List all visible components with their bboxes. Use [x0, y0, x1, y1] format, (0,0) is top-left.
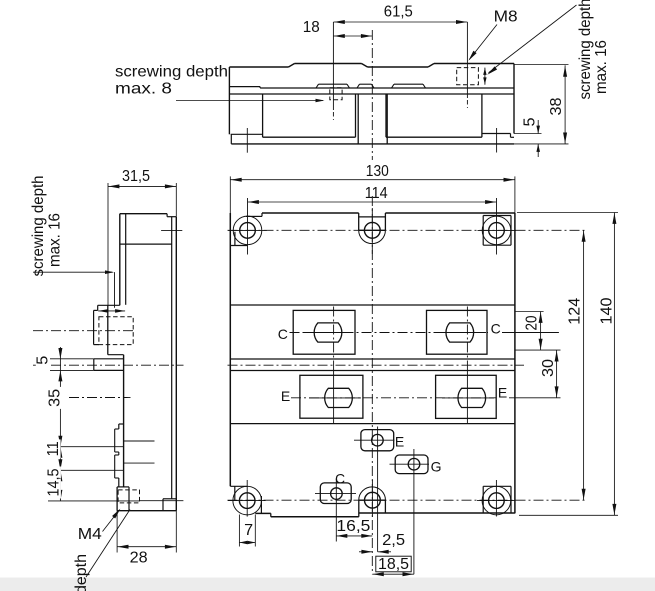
- svg-text:140: 140: [599, 297, 616, 324]
- dimension chain 5 / 35 / 11 / 14,5: [59, 347, 61, 501]
- main view: mounting hole top left: [240, 223, 256, 239]
- left view: busbar slot tab: [93, 359, 95, 371]
- main view: top edge right part: [385, 212, 515, 214]
- left view: top edge: [120, 213, 167, 215]
- main view: top hole row centerline / 124 dim extension: [228, 229, 588, 231]
- svg-text:M4: M4: [78, 526, 102, 543]
- left view: top mounting hole row tick: [161, 229, 182, 231]
- svg-text:38: 38: [548, 97, 565, 115]
- main view: terminal band top line: [230, 304, 515, 306]
- svg-text:5: 5: [521, 117, 538, 126]
- main view: mounting hole bottom left: [239, 493, 255, 509]
- top view: case lower rim line left: [229, 86, 260, 88]
- main view: busbar slot top line: [230, 358, 515, 360]
- dimension 7: [238, 515, 240, 547]
- main view: E terminal screw left: [325, 388, 353, 407]
- main view: C terminal screw right: [446, 323, 474, 342]
- top view: right terminal hidden centerline: [466, 100, 468, 108]
- dimension 2,5: [359, 551, 372, 553]
- extension line for 38 dim top: [514, 64, 569, 66]
- svg-text:16,5: 16,5: [336, 518, 370, 535]
- left view: baseplate inner line: [171, 217, 173, 499]
- left view: mounting ear bottom line: [120, 243, 172, 245]
- E aux centerline / 2,5 dim extension: [377, 427, 379, 552]
- svg-text:E: E: [395, 434, 404, 450]
- main view: middle holes: [364, 222, 380, 238]
- label screwing depth max. 16 (left, rotated) with leader: [30, 176, 47, 277]
- main view: bottom hole row centerline / 124 dim extension: [228, 499, 588, 501]
- main view: bottom left mounting pocket: [230, 485, 247, 487]
- extension line for 5 dim top: [514, 133, 542, 135]
- top view: hidden M8 nut pocket right: [457, 68, 479, 85]
- dimension 18,5 (boxed): [372, 573, 414, 575]
- main view: top left mounting pocket: [246, 215, 262, 217]
- left view: M4 terminal pocket: [117, 486, 129, 488]
- label screwing depth max. 16 (right, rotated) with leader: [577, 0, 594, 100]
- extension line 20 top: [516, 311, 544, 313]
- left view: terminal screw axis line: [114, 272, 116, 308]
- svg-text:C: C: [491, 321, 501, 337]
- svg-text:31,5: 31,5: [122, 168, 150, 185]
- top view: aux terminal bump 1: [316, 84, 319, 88]
- left view: module horizontal centerline: [33, 364, 184, 366]
- main view: right edge: [514, 213, 516, 513]
- label screwing depth max. 8 with leader: [115, 64, 228, 81]
- top view: central mounting channel: [357, 94, 359, 144]
- G aux centerline / 18,5 dim extension: [413, 449, 415, 574]
- main view: bottom right mounting pocket: [483, 485, 511, 487]
- main view: mounting hole bottom right: [489, 493, 505, 509]
- main view: top middle hole boss arc: [359, 230, 386, 243]
- extension line 11/14,5: [48, 469, 124, 471]
- svg-text:depth: depth: [73, 554, 90, 591]
- left view: mounting hole axis line: [140, 500, 184, 502]
- extension line 31,5 left: [107, 183, 109, 305]
- main view: E row centerline: [291, 397, 496, 399]
- top view: case left edge: [228, 67, 230, 134]
- svg-text:35: 35: [47, 389, 64, 407]
- top view: left terminal hidden centerline: [332, 112, 334, 120]
- svg-text:7: 7: [244, 522, 253, 539]
- main view: screw cross ticks: [303, 332, 353, 334]
- left view: aux pin rows: [124, 440, 155, 442]
- main view: bottom edge step: [270, 513, 272, 516]
- label G aux: [431, 458, 442, 474]
- top view: aux terminal bump 3: [392, 84, 395, 88]
- main view: bottom middle hole boss arc: [359, 487, 386, 500]
- main view: right terminal centerline: [466, 307, 468, 363]
- main view: C terminal block right: [427, 310, 488, 354]
- main view: bottom edge left half (lower): [271, 516, 359, 518]
- top view: right terminal centerline / 61,5 dim extension: [466, 22, 468, 98]
- label M8 with leader: [494, 9, 518, 26]
- label E right: [498, 385, 507, 401]
- top view: right terminal boss: [428, 64, 434, 68]
- left view: aux terminal protrusion: [119, 423, 124, 425]
- label E aux: [395, 434, 404, 450]
- left view: case front edge inner: [125, 214, 127, 305]
- extension line for 38 dim bottom: [514, 143, 569, 145]
- svg-text:max. 8: max. 8: [115, 81, 172, 98]
- svg-text:max. 16: max. 16: [47, 213, 64, 267]
- top view: middle mounting hole centerline: [371, 30, 373, 160]
- left view: C/E terminal protrusion: [98, 304, 120, 306]
- label C right: [491, 321, 501, 337]
- left view: C row centerline: [33, 330, 134, 332]
- left view: top right step: [166, 214, 168, 217]
- main view: G aux terminal: [395, 455, 428, 474]
- main view: left edge: [229, 213, 231, 486]
- top view: case top surface left: [229, 66, 288, 68]
- dimension 16,5: [336, 535, 372, 537]
- svg-text:E: E: [281, 388, 290, 404]
- dimension 130: [229, 176, 231, 213]
- label depth (rotated) with leader: [73, 554, 90, 591]
- svg-text:28: 28: [130, 550, 148, 567]
- extension line 30 bottom: [509, 397, 561, 399]
- dimension 38: [564, 65, 566, 144]
- extension line 14,5 bottom: [48, 500, 140, 502]
- main view: top right mounting pocket: [482, 216, 484, 246]
- svg-text:14,5: 14,5: [45, 468, 62, 496]
- main view: C row centerline: [290, 332, 489, 334]
- dimension 5 (baseplate): [537, 120, 539, 134]
- top view: case lower rim line right: [260, 87, 514, 89]
- svg-text:screwing depth: screwing depth: [115, 64, 228, 81]
- top view: aux terminal bump 2: [357, 84, 360, 88]
- top view: right mounting hole centerline tick: [496, 128, 498, 153]
- dimension 124: [583, 230, 585, 500]
- top view: case right edge: [513, 64, 515, 134]
- main view: busbar slot bottom line: [230, 370, 515, 372]
- bottom gray bar (screenshot artifact): [0, 578, 655, 591]
- top view: case bottom right corner step: [482, 133, 511, 135]
- main view: top middle mounting notch: [358, 213, 360, 230]
- left view: hidden C/E nut pocket: [99, 317, 133, 345]
- svg-text:max. 16: max. 16: [593, 40, 610, 94]
- top view: case skirt left: [262, 94, 264, 137]
- svg-text:18,5: 18,5: [378, 556, 409, 573]
- main view: left terminal centerline: [333, 307, 335, 363]
- top view: rim step: [259, 87, 261, 88]
- svg-text:screwing depth: screwing depth: [30, 176, 47, 277]
- dimension 18: [333, 35, 372, 37]
- main view: bottom edge at left corner: [255, 512, 270, 514]
- main view: E terminal screw right: [458, 388, 486, 407]
- left view: bottom edge and right notch: [117, 510, 176, 512]
- extension line 20/30: [516, 349, 561, 351]
- left view: case front edge outer: [119, 214, 121, 306]
- top view: hidden nut pocket left: [330, 88, 342, 100]
- main view: C terminal block left: [293, 310, 355, 354]
- extension line 140 bottom: [519, 514, 618, 516]
- svg-text:30: 30: [540, 359, 557, 377]
- main view: vertical centerline: [371, 196, 373, 574]
- left view: case front edge lower: [123, 355, 125, 487]
- top view: left mounting hole centerline tick: [246, 128, 248, 153]
- svg-text:20: 20: [524, 315, 541, 330]
- svg-text:130: 130: [366, 163, 389, 180]
- svg-text:G: G: [431, 458, 442, 474]
- main view: E terminal block left: [300, 375, 363, 418]
- svg-text:C: C: [335, 470, 345, 486]
- dimension 28: [116, 511, 118, 553]
- label E left: [281, 388, 290, 404]
- top view: case skirt right: [385, 94, 387, 137]
- main view: bottom middle mounting pocket: [359, 499, 386, 501]
- svg-text:18: 18: [303, 19, 320, 36]
- svg-text:screwing depth: screwing depth: [577, 0, 594, 100]
- main view: C aux terminal: [320, 483, 351, 504]
- top view: case bottom left corner step: [231, 133, 263, 135]
- label M4 with leader: [78, 526, 102, 543]
- extension line 31,5 right: [175, 183, 177, 217]
- main view: E terminal block right: [436, 375, 497, 418]
- svg-text:5: 5: [34, 356, 51, 365]
- svg-text:11: 11: [45, 441, 62, 456]
- top view: screwing depth 16 arrow: [484, 68, 486, 85]
- svg-text:M8: M8: [494, 9, 518, 26]
- left view: gap arrow line: [98, 310, 125, 312]
- left view: baseplate bottom face (right edge): [175, 217, 177, 511]
- top view: baseplate bottom edge: [231, 143, 514, 145]
- svg-text:61,5: 61,5: [384, 4, 413, 21]
- extension line 5 bottom: [50, 369, 94, 371]
- dimension 114: [248, 201, 497, 203]
- C aux centerline / 16,5 dim extension: [335, 479, 337, 542]
- svg-text:C: C: [278, 326, 288, 342]
- top view: left terminal boss: [289, 64, 295, 68]
- svg-text:124: 124: [567, 298, 584, 325]
- svg-text:E: E: [498, 385, 507, 401]
- extension line 5 top: [50, 358, 94, 360]
- main view: terminal band bottom line: [230, 423, 515, 425]
- main view: horizontal centerline: [228, 364, 525, 366]
- top view: case top surface middle: [368, 66, 429, 68]
- main view: bottom edge right part: [359, 512, 515, 514]
- left view: protrusion gap arrows: [98, 309, 108, 313]
- main view: E aux terminal: [361, 430, 394, 451]
- left view: E row centerline: [69, 397, 131, 399]
- main view: C terminal screw left: [314, 323, 342, 342]
- top view: left terminal centerline / 61,5 18 dim extension: [332, 22, 334, 110]
- main view: hole centerline ticks: [228, 229, 266, 231]
- label C aux: [335, 470, 345, 486]
- extension line 140 top: [517, 212, 618, 214]
- main view: C row centerline right extension: [502, 332, 559, 334]
- extension line 35/11: [48, 446, 124, 448]
- left view: hidden M4 nut pocket: [118, 490, 139, 503]
- main view: top edge left part: [262, 212, 359, 214]
- svg-text:114: 114: [365, 185, 388, 202]
- dimension 61,5: [333, 21, 467, 23]
- svg-text:2,5: 2,5: [382, 532, 405, 549]
- label C left: [278, 326, 288, 342]
- top view: baseplate top line: [229, 93, 514, 95]
- main view: mounting hole top right: [489, 223, 505, 239]
